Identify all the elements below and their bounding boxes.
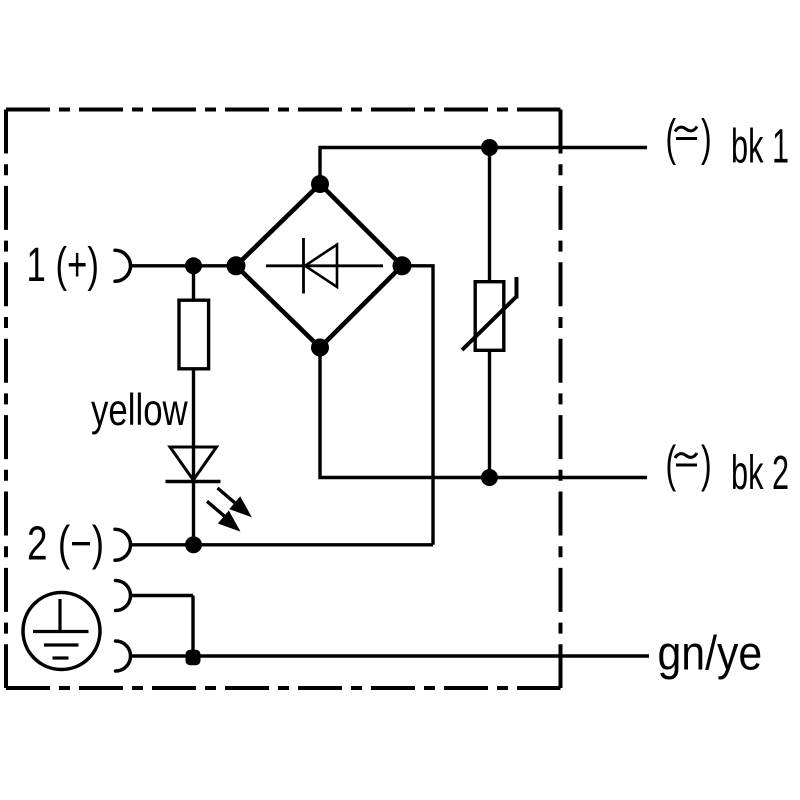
svg-text:bk 2: bk 2 (731, 446, 789, 500)
svg-text:gn/ye: gn/ye (658, 626, 763, 680)
svg-text:2 (−): 2 (−) (27, 517, 104, 571)
svg-text:(: ( (666, 436, 677, 492)
svg-text:bk 1: bk 1 (731, 120, 789, 174)
svg-text:yellow: yellow (91, 386, 188, 435)
svg-text:): ) (701, 109, 712, 165)
svg-text:1 (+): 1 (+) (27, 237, 99, 291)
svg-text:): ) (701, 436, 712, 492)
svg-text:(: ( (666, 109, 677, 165)
